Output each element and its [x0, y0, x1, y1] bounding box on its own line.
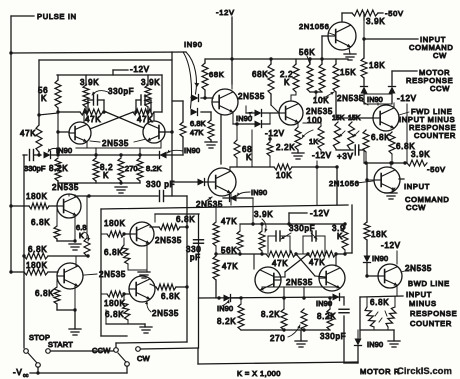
svg-text:-12V: -12V — [397, 94, 417, 103]
svg-text:330 pF: 330 pF — [146, 180, 175, 189]
svg-text:IN90: IN90 — [367, 340, 383, 349]
svg-text:INPUT: INPUT — [406, 290, 432, 299]
svg-text:47K: 47K — [309, 258, 325, 267]
svg-text:2N535: 2N535 — [286, 278, 313, 287]
svg-text:270: 270 — [125, 164, 138, 173]
svg-text:-12V: -12V — [216, 8, 235, 17]
svg-text:6.8K: 6.8K — [371, 133, 390, 142]
svg-text:3.9K: 3.9K — [366, 17, 385, 26]
svg-text:2N535: 2N535 — [306, 107, 333, 116]
svg-text:3.9K: 3.9K — [141, 78, 160, 87]
svg-text:47K: 47K — [85, 115, 101, 124]
svg-text:CW: CW — [137, 354, 150, 363]
svg-text:RESPONSE: RESPONSE — [410, 309, 457, 318]
svg-text:18K: 18K — [371, 230, 387, 239]
svg-text:3.9K: 3.9K — [80, 78, 99, 87]
svg-text:2N535: 2N535 — [155, 236, 182, 245]
svg-text:330pF: 330pF — [320, 332, 346, 341]
svg-text:6.8K: 6.8K — [105, 310, 124, 319]
svg-text:47K: 47K — [190, 128, 203, 137]
svg-text:6.8K: 6.8K — [161, 292, 180, 301]
svg-text:2N535: 2N535 — [238, 92, 265, 101]
svg-text:2N1056: 2N1056 — [299, 22, 329, 31]
svg-text:CCW: CCW — [406, 203, 426, 212]
svg-text:2N535: 2N535 — [52, 183, 79, 192]
svg-text:2N535: 2N535 — [152, 309, 179, 318]
svg-text:10K: 10K — [276, 171, 292, 180]
svg-text:6.8K: 6.8K — [190, 119, 206, 128]
svg-text:-12V: -12V — [265, 129, 285, 138]
svg-text:47K: 47K — [221, 217, 237, 226]
svg-text:18K: 18K — [369, 61, 385, 70]
svg-text:pF: pF — [190, 253, 201, 262]
svg-text:6.8K: 6.8K — [31, 218, 50, 227]
svg-text:270: 270 — [270, 334, 285, 343]
svg-text:180K: 180K — [104, 219, 125, 228]
svg-text:IN90: IN90 — [184, 146, 200, 155]
svg-text:8.2K: 8.2K — [317, 312, 336, 321]
svg-text:6.8K: 6.8K — [370, 298, 389, 307]
svg-text:330pF: 330pF — [289, 224, 315, 233]
svg-text:2N535: 2N535 — [405, 264, 432, 273]
svg-text:330pF: 330pF — [24, 164, 46, 173]
svg-text:47K: 47K — [20, 129, 36, 138]
svg-text:6.8K: 6.8K — [28, 245, 47, 254]
svg-text:2N535: 2N535 — [196, 200, 223, 209]
svg-text:-V: -V — [13, 368, 22, 377]
svg-text:K: K — [79, 231, 84, 240]
svg-text:K: K — [284, 78, 290, 87]
svg-text:IN90: IN90 — [217, 304, 233, 313]
svg-text:IN90: IN90 — [251, 188, 267, 197]
svg-text:47K: 47K — [222, 262, 238, 271]
svg-text:-12V: -12V — [381, 241, 401, 250]
svg-text:CW: CW — [433, 51, 447, 60]
svg-text:-12V: -12V — [310, 209, 330, 218]
svg-text:2.2K: 2.2K — [276, 143, 295, 152]
svg-text:100: 100 — [307, 116, 322, 125]
svg-text:IN90: IN90 — [367, 95, 383, 104]
svg-text:CirckIS.com: CirckIS.com — [397, 366, 452, 377]
svg-text:-50V: -50V — [427, 165, 446, 174]
svg-text:68K: 68K — [209, 70, 224, 79]
svg-text:COUNTER: COUNTER — [410, 319, 452, 328]
svg-text:START: START — [48, 340, 73, 349]
svg-text:3.9K: 3.9K — [254, 210, 273, 219]
svg-text:2N1056: 2N1056 — [329, 179, 359, 188]
svg-text:8.2K: 8.2K — [217, 317, 236, 326]
svg-text:8.2K: 8.2K — [146, 164, 162, 173]
svg-text:K = X 1,000: K = X 1,000 — [237, 369, 281, 378]
svg-text:IN90: IN90 — [372, 254, 388, 263]
svg-text:IN90: IN90 — [184, 40, 203, 49]
svg-text:K: K — [103, 171, 109, 180]
svg-text:INPUT: INPUT — [404, 182, 430, 191]
svg-text:BWD LINE: BWD LINE — [408, 279, 450, 288]
svg-text:68K: 68K — [252, 70, 268, 79]
svg-text:3.9K: 3.9K — [411, 150, 430, 159]
svg-text:COUNTER: COUNTER — [414, 131, 456, 140]
svg-text:CCW: CCW — [92, 346, 111, 355]
svg-text:-12V: -12V — [130, 65, 150, 74]
svg-text:6.8K: 6.8K — [35, 289, 54, 298]
svg-text:IN90: IN90 — [236, 114, 252, 123]
svg-text:2N535: 2N535 — [99, 270, 126, 279]
svg-text:-12V: -12V — [312, 151, 332, 160]
svg-text:6.8K: 6.8K — [104, 248, 123, 257]
svg-text:cc: cc — [23, 373, 29, 379]
svg-text:MOTOR R: MOTOR R — [360, 367, 400, 376]
svg-text:180K: 180K — [26, 192, 47, 201]
svg-text:+3V: +3V — [337, 152, 354, 161]
svg-text:CCW: CCW — [430, 84, 450, 93]
svg-text:15K: 15K — [340, 68, 356, 77]
svg-text:K: K — [246, 153, 252, 162]
svg-text:MINUS: MINUS — [409, 299, 437, 308]
svg-text:330pF: 330pF — [108, 87, 134, 96]
svg-text:6.8K: 6.8K — [176, 215, 195, 224]
svg-text:8.2K: 8.2K — [49, 164, 68, 173]
svg-text:2N535: 2N535 — [102, 139, 129, 148]
svg-text:47K: 47K — [137, 115, 153, 124]
svg-text:47K: 47K — [272, 259, 288, 268]
svg-text:PULSE IN: PULSE IN — [37, 12, 77, 21]
svg-text:8.2K: 8.2K — [261, 310, 280, 319]
svg-text:-50V: -50V — [385, 9, 404, 18]
svg-text:IN90: IN90 — [56, 146, 72, 155]
svg-text:10K: 10K — [313, 96, 329, 105]
svg-text:K: K — [41, 94, 47, 103]
svg-text:2N535: 2N535 — [337, 94, 364, 103]
svg-text:1K: 1K — [309, 137, 318, 146]
